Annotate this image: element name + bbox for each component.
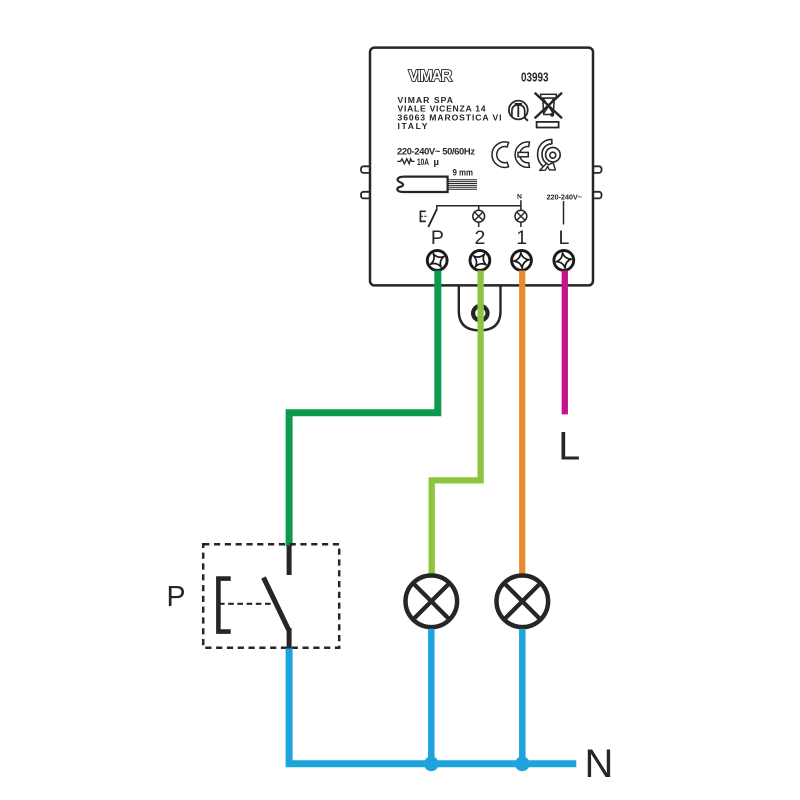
schematic lamp A stub (478, 206, 480, 227)
terminal screw 2 (470, 251, 490, 271)
svg-text:ITALY: ITALY (398, 121, 428, 131)
switch S1 bottom contact (287, 628, 292, 649)
switch S1 lever (264, 578, 289, 630)
wire blue from switch to N bus (289, 649, 576, 764)
switch S1 top contact (287, 546, 292, 576)
wire green from P to switch (289, 271, 438, 547)
wire magenta from L (562, 271, 568, 415)
WEEE crossed-out bin (535, 93, 562, 118)
wire blue lamp E2 down (519, 629, 526, 764)
svg-text:L: L (558, 425, 580, 469)
left clip tab lower (361, 192, 371, 199)
CE mark letter C (492, 142, 509, 167)
IMQ mark circle (509, 101, 528, 121)
svg-text:10A: 10A (417, 156, 429, 167)
pushbutton actuator bracket (218, 579, 230, 632)
schematic L feed line (563, 201, 565, 225)
svg-text:L: L (559, 227, 570, 249)
svg-text:N: N (517, 194, 522, 201)
CE mark letter E (515, 142, 529, 168)
schematic lamp A (473, 210, 485, 222)
stripped conductors (448, 180, 477, 190)
quality mark (hook logo) (538, 139, 561, 170)
cable sheath drawing (397, 177, 447, 192)
lamp E1 (406, 576, 458, 628)
E middle bar (518, 152, 528, 156)
wire blue lamp E1 down (428, 629, 435, 764)
wire yellow-green from 2 to lamp 1 (432, 271, 481, 575)
junction node E2/N (515, 756, 530, 771)
WEEE bar (537, 122, 559, 128)
mounting tab with hole below box (459, 284, 501, 330)
svg-text:µ: µ (434, 157, 439, 168)
device box U1 (Vimar 03993) (370, 48, 593, 286)
svg-text:N: N (585, 742, 614, 786)
svg-text:1: 1 (516, 227, 527, 249)
svg-text:2: 2 (475, 227, 486, 249)
wire orange from 1 to lamp 2 (519, 271, 525, 575)
schematic lamp B (515, 210, 527, 222)
left clip tab upper (361, 166, 371, 173)
svg-text:220-240V~: 220-240V~ (547, 192, 583, 201)
schematic lamp B stub (520, 206, 522, 227)
svg-text:9 mm: 9 mm (453, 167, 474, 178)
schematic pushbutton bracket (420, 211, 425, 221)
tab hole (473, 306, 487, 320)
inner schematic bus wire (437, 200, 521, 209)
junction node E1/N (424, 756, 439, 771)
terminal screw P (427, 251, 447, 271)
svg-text:VIMAR: VIMAR (409, 68, 453, 85)
svg-text:P: P (167, 581, 186, 613)
lamp load symbol (397, 159, 414, 164)
lamp E2 (497, 576, 549, 628)
actuator dashed link (219, 603, 275, 605)
terminal screw 1 (512, 251, 532, 271)
dashed switch enclosure (203, 544, 339, 648)
svg-text:P: P (431, 227, 444, 249)
schematic switch lever (428, 209, 437, 227)
svg-text:220-240V~ 50/60Hz: 220-240V~ 50/60Hz (397, 146, 475, 157)
svg-text:03993: 03993 (521, 71, 549, 85)
terminal screw L (554, 251, 574, 271)
right clip tab upper (592, 166, 602, 173)
right clip tab lower (592, 192, 602, 199)
